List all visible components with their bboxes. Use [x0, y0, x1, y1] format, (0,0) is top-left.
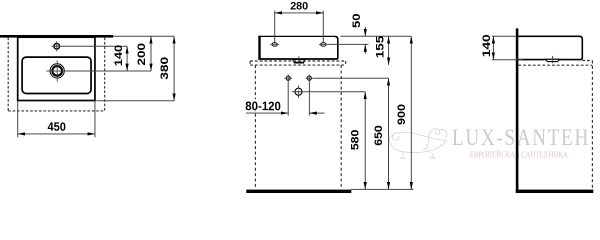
dashed countertop slab (front) bottom line — [250, 64, 346, 66]
dashed countertop slab (front) left edge — [249, 61, 251, 65]
dim 280 (hole spacing) — [275, 0, 324, 12]
dashed countertop outline (plan) left side — [7, 38, 9, 111]
left mounting hole (front) — [270, 43, 279, 47]
dim 140 (basin height, side) — [481, 34, 493, 60]
drain (plan) outer circle — [50, 64, 64, 78]
dim 450 extension line right — [94, 102, 96, 138]
faucet hole leader to 140 dim — [52, 45, 128, 47]
svg-text:280: 280 — [290, 0, 308, 12]
svg-text:LUX-SANTEH: LUX-SANTEH — [452, 124, 590, 150]
dim 580 (floor to drain pipe) — [350, 92, 366, 190]
watermark bathtub logo — [389, 129, 447, 159]
dim 450 (plan width) — [18, 120, 95, 134]
wall line (side) — [516, 28, 519, 193]
drain fitting (side) — [546, 59, 560, 61]
dim 650 (floor to fixing holes) — [373, 78, 388, 189]
wall fixing hole left (front) — [284, 74, 292, 82]
dim 280 extension line right — [322, 11, 324, 43]
floor line (side) — [516, 190, 594, 193]
dim 50 (top to holes), outside arrows — [351, 13, 366, 53]
svg-text:ЕВРОПЕЙСКАЯ САНТЕХНИКА: ЕВРОПЕЙСКАЯ САНТЕХНИКА — [470, 149, 568, 159]
basin front outline — [261, 37, 337, 58]
basin side profile — [518, 36, 582, 59]
dashed slab top right stub (side) — [582, 60, 592, 62]
fixing holes leader to 650 dim — [313, 77, 388, 79]
dim 140 (plan, faucet to drain) — [113, 45, 127, 71]
svg-text:155: 155 — [374, 36, 386, 59]
drain (plan) vertical centerline — [56, 60, 58, 81]
dashed countertop slab (front) right edge — [345, 61, 347, 65]
dashed countertop outline (plan) bottom — [8, 110, 105, 112]
dim 140 bottom leader (side) — [492, 59, 523, 61]
basin bottom leader to 380 dim — [96, 100, 174, 102]
wall line (plan) — [0, 35, 113, 38]
drain (plan) thick ring — [52, 66, 62, 76]
dim 155 (top to slab bottom) — [374, 36, 388, 65]
svg-text:80-120: 80-120 — [245, 99, 281, 113]
svg-text:580: 580 — [350, 130, 362, 151]
wall fixing hole right (front) — [306, 74, 314, 82]
dim 280 extension line left — [274, 11, 276, 43]
basin inner bowl rounded rectangle (plan) — [22, 57, 91, 93]
dim 80-120 arrows — [244, 99, 324, 113]
floor leader thin line — [351, 188, 414, 190]
svg-text:50: 50 — [351, 13, 363, 28]
basin outer rectangle (plan) — [18, 37, 95, 100]
80-120 extension line left — [287, 82, 289, 116]
svg-text:200: 200 — [136, 43, 148, 66]
svg-text:900: 900 — [396, 104, 408, 125]
dashed cabinet right line to floor (side) — [591, 61, 593, 189]
dim 200 (plan, wall to drain) — [136, 36, 151, 71]
dashed cabinet left line to floor — [254, 65, 256, 189]
drain center tick (side) — [552, 56, 554, 63]
svg-text:650: 650 — [373, 125, 385, 146]
80-120 extension line right — [308, 82, 310, 116]
svg-text:380: 380 — [159, 57, 171, 80]
dim 140 top leader (side) — [492, 35, 516, 37]
dashed slab bottom line (side) — [518, 64, 592, 66]
dim 450 extension line left — [17, 102, 19, 138]
svg-text:450: 450 — [47, 120, 66, 134]
dashed countertop slab (front) top line — [250, 60, 346, 62]
drain pipe leader to 580 dim — [292, 91, 365, 93]
right mounting hole (front) — [319, 43, 328, 47]
svg-text:140: 140 — [113, 45, 125, 67]
floor line (front) — [246, 190, 351, 193]
svg-text:140: 140 — [481, 34, 493, 57]
drain fitting under basin (front) — [293, 60, 306, 63]
dashed countertop outline (plan) right side — [104, 38, 106, 111]
dim 900 (floor to rim) — [396, 36, 412, 189]
mounting holes leader to 50 dim — [328, 43, 369, 45]
wall leader extension to 380 dim — [113, 35, 174, 37]
drain center tick (front) — [298, 56, 300, 64]
faucet hole (plan) — [54, 41, 60, 51]
basin top leader to 900 dim — [341, 35, 412, 37]
drain pipe circle (front) — [295, 86, 302, 98]
dashed cabinet right line to floor — [340, 65, 342, 189]
dim 380 (plan depth) — [159, 36, 174, 101]
drain leader to 200 dim — [46, 70, 151, 72]
